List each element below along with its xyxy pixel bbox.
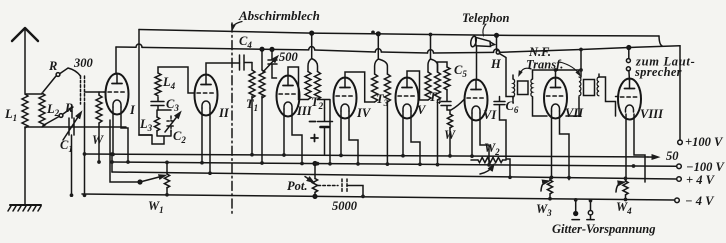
svg-text:50: 50 [666,149,679,163]
tube VIII [618,79,641,120]
svg-text:+100 V: +100 V [685,135,724,149]
coil L2 [39,93,45,127]
svg-text:L1: L1 [4,107,17,123]
wire anode tube VIII to loudspeaker [628,71,631,81]
tube III [277,76,300,117]
wire filament legs tube VI [472,113,489,165]
tube IV [334,78,357,119]
transformer T1 secondary [259,70,265,98]
svg-text:Pot.: Pot. [287,179,307,193]
svg-text:T1: T1 [246,97,258,113]
wire filament legs tube II [202,108,210,173]
svg-text:W3: W3 [536,202,552,218]
svg-text:− 4 V: − 4 V [685,194,715,208]
svg-text:VIII: VIII [640,107,664,121]
svg-text:L4: L4 [162,75,176,91]
wire filament legs tube VIII [626,114,645,182]
wire rail E (+4V bus) [112,172,676,179]
terminal +4V [677,177,682,182]
wire filament legs tube I [113,107,128,162]
svg-text:VII: VII [565,106,584,120]
node dots on rails [70,30,636,202]
NF transformer 2 [579,74,599,96]
svg-text:I: I [129,103,136,117]
wire rail B (second bus) [116,46,680,53]
transformer T1 primary [251,63,253,71]
wire fork from rail A to T2 [308,33,318,71]
trimmer capacitor 500 [268,49,277,78]
transformer T3 secondary [384,74,390,102]
capacitor 5000 (blocking, dashed) [318,179,347,192]
wire NF2 secondary leads [599,77,619,116]
wire NF1 bottom leads [513,98,547,116]
wire 300 bottom drop to bus [84,104,86,195]
resistor W (grid leak VI) [447,114,452,128]
potentiometer W4 [623,181,628,195]
wire L1 to ground [24,127,26,205]
wire fork from rail A to T4 [428,35,438,73]
wire T4 secondary bottom down [437,100,439,165]
svg-text:Telephon: Telephon [462,11,510,25]
potentiometer W2 [478,157,503,162]
svg-text:Gitter-Vorspannung: Gitter-Vorspannung [552,222,656,236]
wire anode tube V to T4 primary bottom [407,71,428,100]
ground [10,204,41,206]
capacitor C4 [240,55,253,70]
svg-text:W: W [92,133,104,147]
svg-text:L3: L3 [139,117,153,133]
wire rail C (+50V bus) [85,154,649,157]
tube VII [544,78,567,119]
wire filament legs tube IV [341,111,358,164]
wire rail B right drop to +100V [679,46,681,140]
svg-text:V: V [417,103,427,117]
wire filament legs tube III [284,109,302,163]
svg-text:500: 500 [279,50,299,64]
wire anode tube VII [556,50,582,80]
coil L3 [154,117,159,131]
potentiometer W1 [164,174,169,188]
arrow to 50 label [648,156,656,158]
coil L1 [22,94,28,128]
svg-text:+ 4 V: + 4 V [686,173,716,187]
wire anode tube IV to T3 primary bottom [345,72,375,102]
capacitor C6 [494,97,510,178]
NF transformer 1 [513,72,533,98]
leader to NF2 [560,62,579,74]
wire T3 secondary bottom down [386,102,388,164]
antenna [12,28,38,41]
svg-text:5000: 5000 [332,199,358,213]
transformer T2 primary [305,72,311,100]
wire drop to telephone jack [496,35,498,50]
capacitor 300 (series antenna cap) [81,76,85,104]
wire L4 top to grid line [158,67,195,93]
wire anode tube II up to C4 [206,63,240,74]
wire T2 secondary bottom to bias battery [318,100,331,164]
switch R upper [43,76,56,92]
wire L3/C2 parallel frame [152,110,171,144]
svg-text:C5: C5 [454,63,467,79]
svg-text:W2: W2 [484,141,500,157]
capacitor C3 [151,97,164,110]
capacitor C5 [441,90,451,115]
wire rail A left drop [139,30,152,136]
svg-text:−100 V: −100 V [686,160,725,174]
terminal -100V [677,164,682,169]
trimmer capacitor C2 [167,116,175,131]
wire rail A right drop joining rail B [659,36,662,46]
switch H [496,51,500,55]
svg-text:C4: C4 [239,34,252,50]
svg-text:Abschirmblech: Abschirmblech [238,8,320,23]
transformer T4 primary [425,72,431,100]
svg-text:W4: W4 [616,200,632,216]
svg-text:T3: T3 [376,92,389,108]
coil L4 [155,73,161,96]
wire fork from rail A to T3 [375,34,388,74]
wire rail A (top +100V bus) [139,30,659,37]
terminal +100V [678,140,683,145]
wire L2 parallel ties [25,94,126,127]
wire rail B left drop to tube I anode [115,47,117,74]
transformer T3 primary [372,74,378,102]
potentiometer W3 [547,180,552,194]
wire filament legs tube V [403,111,420,164]
shield partition (Abschirmblech) [231,23,233,215]
wire filament legs tube VII [552,111,570,180]
telephone plug [470,36,477,48]
resistor W (grid leak) [96,95,102,123]
svg-text:R: R [48,59,57,73]
tube VI [465,80,488,121]
wire NF1 secondary top to anode bus [533,70,556,72]
wire rail F (-4V bus) [82,194,674,200]
svg-text:C6: C6 [506,99,519,115]
svg-text:300: 300 [73,56,94,70]
wire NF2 primary bottom [566,97,579,116]
Gitter-Vorspannung terminal 1 [575,200,577,212]
svg-text:L2: L2 [46,102,60,118]
terminal -4V [675,198,680,203]
anode coil (choke) [438,62,448,72]
leader to NF1 [520,68,532,74]
wire C1 bottom to bus [71,135,73,195]
leader to plug [483,24,486,36]
svg-text:sprecher: sprecher [634,65,682,79]
svg-text:W1: W1 [148,199,164,215]
variable capacitor C1 [63,107,80,140]
wire hop on rail B over verticals [136,44,500,53]
wire rail D left riser [111,154,113,172]
svg-text:C2: C2 [173,129,186,145]
Gitter-Vorspannung terminal 2 [590,201,592,211]
tube II [195,75,218,116]
tube V [396,78,419,119]
wire W2 ends [471,159,506,161]
grid bias battery [318,108,333,155]
svg-text:IV: IV [356,106,372,120]
svg-text:VI: VI [483,108,497,122]
loudspeaker terminals [628,48,630,59]
wire anode tube III [288,67,308,100]
svg-text:W: W [444,128,456,142]
transformer T4 secondary [435,72,441,100]
wire rail A drop joins grid return [139,135,152,144]
switch R lower [43,117,59,126]
wire grid feed tube I [104,91,106,93]
tube I [106,74,129,115]
svg-text:H: H [490,57,502,71]
wire plug to tube VI anode [476,47,478,80]
transformer T2 secondary [315,72,321,100]
potentiometer Pot. [312,179,317,193]
svg-text:II: II [218,106,230,120]
wire rail D (-100V bus) [112,162,676,166]
